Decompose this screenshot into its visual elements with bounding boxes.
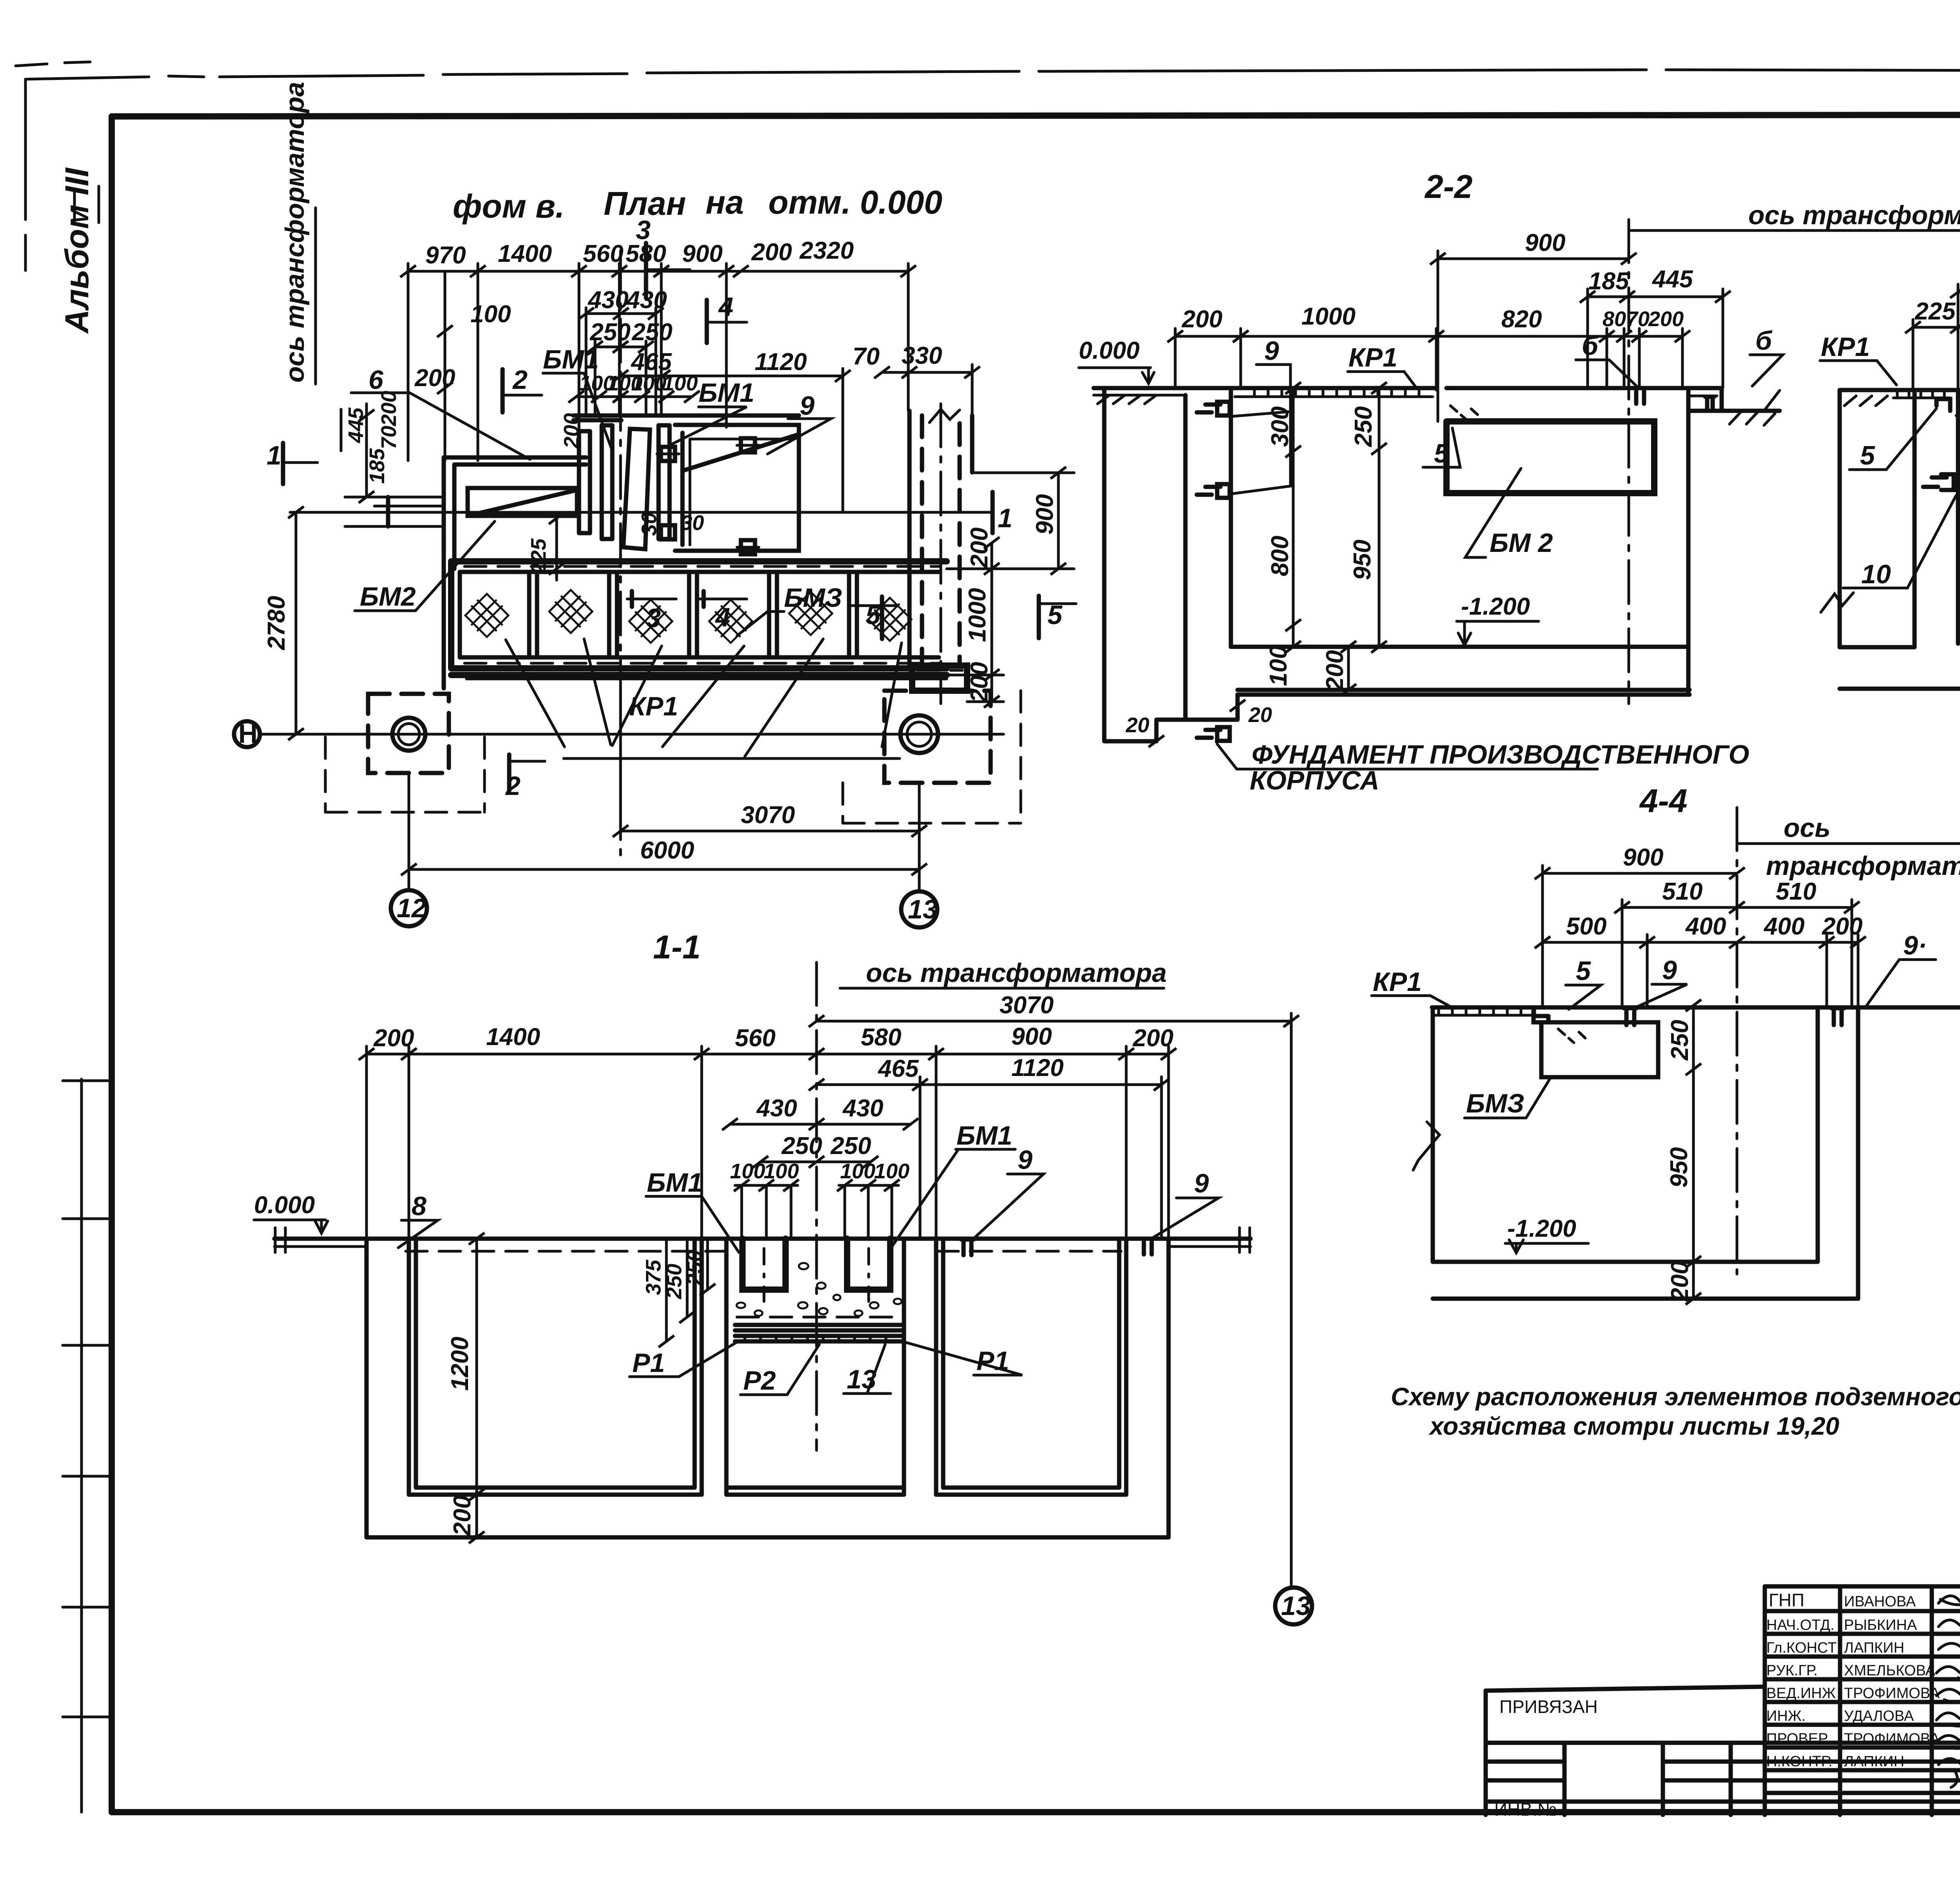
svg-text:КР1: КР1: [1348, 343, 1397, 372]
svg-text:185: 185: [365, 448, 389, 484]
svg-text:200: 200: [966, 528, 993, 568]
top dim chain: [408, 270, 908, 273]
dim 430 430: [730, 1123, 911, 1126]
svg-text:Р2: Р2: [743, 1366, 776, 1395]
axis line 2-2: [1628, 220, 1630, 704]
column extension verticals: [409, 684, 919, 891]
ext verticals: [367, 1046, 1169, 1239]
svg-text:250: 250: [590, 319, 630, 346]
svg-text:900: 900: [1623, 844, 1663, 871]
inventory sub-table: [1486, 1743, 1960, 1815]
signatures squiggles: [1938, 1593, 1960, 1605]
central block sides: [726, 1239, 904, 1495]
svg-text:ИНВ.№: ИНВ.№: [1494, 1799, 1557, 1820]
right box: [675, 425, 799, 551]
dims 100 x4: [576, 396, 692, 398]
svg-text:225: 225: [527, 538, 550, 574]
svg-text:ЛАПКИН: ЛАПКИН: [1844, 1753, 1904, 1770]
svg-text:10: 10: [1861, 559, 1891, 589]
dim 1200 200: [475, 1239, 478, 1537]
svg-text:200: 200: [1321, 650, 1348, 691]
svg-text:ПРИВЯЗАН: ПРИВЯЗАН: [1499, 1697, 1598, 1717]
dim 900: [1543, 866, 1737, 1007]
svg-text:250: 250: [662, 1264, 686, 1299]
ground line 4-4: [1432, 1005, 1960, 1010]
ground top line: [1094, 386, 1722, 390]
svg-text:70: 70: [1626, 307, 1650, 331]
left foundation wall 3-3: [1840, 390, 1915, 647]
slot R4: [659, 425, 670, 539]
svg-text:1: 1: [267, 441, 281, 470]
svg-text:100: 100: [874, 1159, 909, 1183]
page outer thin border left upper: [24, 79, 27, 270]
gravel dots central: [737, 1263, 902, 1316]
svg-text:4: 4: [715, 602, 730, 632]
svg-text:БМ 2: БМ 2: [1490, 528, 1553, 558]
extension verticals from top chain: [408, 263, 908, 490]
svg-text:6000: 6000: [640, 837, 694, 864]
svg-text:б: б: [1755, 326, 1773, 356]
svg-text:950: 950: [1349, 540, 1376, 580]
svg-text:250: 250: [781, 1132, 822, 1159]
dim 510 510: [1622, 900, 1852, 1007]
pit left wall 2-2: [1229, 388, 1233, 647]
svg-text:3: 3: [646, 603, 661, 633]
dim 100 100 pairs: [735, 1184, 898, 1187]
svg-text:ЛАПКИН: ЛАПКИН: [1844, 1640, 1904, 1656]
svg-text:ВЕД.ИНЖ: ВЕД.ИНЖ: [1766, 1685, 1836, 1702]
svg-text:2-2: 2-2: [1424, 168, 1472, 205]
svg-text:250: 250: [632, 319, 672, 346]
svg-text:НАЧ.ОТД.: НАЧ.ОТД.: [1766, 1617, 1835, 1633]
svg-text:12: 12: [397, 893, 426, 923]
svg-text:560: 560: [735, 1025, 775, 1052]
svg-text:185: 185: [1588, 268, 1630, 295]
svg-text:-1.200: -1.200: [1507, 1215, 1576, 1242]
svg-text:250: 250: [830, 1132, 871, 1159]
slot R1: [579, 431, 590, 533]
H axis line: [260, 733, 1004, 736]
svg-text:445: 445: [344, 407, 368, 443]
svg-text:250: 250: [683, 1250, 706, 1286]
svg-text:УДАЛОВА: УДАЛОВА: [1844, 1708, 1914, 1724]
svg-text:ГНП: ГНП: [1769, 1590, 1804, 1610]
wall bottom block: [912, 666, 967, 691]
svg-text:ось трансформатора: ось трансформатора: [280, 82, 310, 383]
svg-text:1400: 1400: [498, 240, 552, 267]
svg-text:200: 200: [751, 239, 792, 266]
svg-text:900: 900: [1011, 1023, 1052, 1050]
anchor squares: [661, 438, 755, 554]
svg-text:30: 30: [681, 511, 704, 535]
svg-text:200: 200: [1822, 913, 1862, 940]
svg-text:БМ2: БМ2: [360, 582, 416, 611]
svg-text:трансформатора: трансформатора: [1766, 851, 1960, 881]
svg-text:20: 20: [1125, 713, 1149, 737]
svg-text:1200: 1200: [446, 1337, 474, 1391]
page outer thin border left lower: [80, 1079, 83, 1812]
svg-text:200: 200: [449, 1495, 476, 1536]
axis vertical dash-dot: [619, 251, 622, 856]
svg-text:Н: Н: [238, 719, 258, 749]
break mark 4-4: [1413, 1122, 1439, 1170]
section mark 2 lower: [507, 755, 512, 791]
svg-text:БМ1: БМ1: [699, 378, 755, 408]
corner step 5: [1936, 399, 1950, 411]
dims 465 1120: [621, 375, 843, 377]
svg-text:Р1: Р1: [632, 1348, 665, 1378]
anchors 4-4: [1624, 1008, 1637, 1025]
anchor mid: [961, 1239, 974, 1255]
svg-text:200: 200: [414, 365, 455, 392]
anchor circles left: [392, 718, 425, 751]
svg-text:300: 300: [1267, 406, 1294, 447]
slot R2: [602, 425, 612, 539]
svg-text:ТРОФИМОВА: ТРОФИМОВА: [1844, 1731, 1940, 1747]
svg-text:БМЗ: БМЗ: [784, 583, 842, 613]
svg-text:БМ1: БМ1: [647, 1168, 703, 1198]
svg-text:510: 510: [1776, 878, 1816, 905]
pit 3: [936, 1239, 1126, 1495]
anchor dashed square right: [884, 691, 991, 783]
svg-text:ХМЕЛЬКОВА: ХМЕЛЬКОВА: [1844, 1662, 1936, 1679]
svg-text:70: 70: [853, 343, 880, 370]
svg-text:РЫБКИНА: РЫБКИНА: [1844, 1617, 1917, 1633]
svg-text:9: 9: [800, 391, 815, 421]
svg-text:560: 560: [583, 240, 623, 267]
tapered slot left: [468, 488, 577, 516]
main dim chain 1-1: [367, 1053, 1169, 1056]
tapered slot center: [623, 429, 650, 549]
dim 250 250: [760, 1161, 871, 1163]
svg-text:5: 5: [1576, 956, 1591, 986]
svg-text:8: 8: [412, 1191, 426, 1221]
page outer corner dashes: [16, 62, 90, 66]
hatch blobs: [465, 594, 508, 637]
dim 250 950: [1378, 390, 1381, 647]
band bottom: [451, 668, 947, 675]
svg-text:на: на: [706, 184, 744, 221]
BM2 block: [1446, 421, 1654, 493]
svg-text:400: 400: [1685, 913, 1726, 940]
svg-text:ИНЖ.: ИНЖ.: [1766, 1708, 1806, 1724]
svg-text:1: 1: [998, 503, 1013, 533]
P2 plate 1-1: [737, 1316, 902, 1319]
cell dividers: [529, 572, 857, 657]
outer walls 1-1: [367, 1239, 1169, 1537]
svg-text:6: 6: [368, 365, 384, 395]
bottom slab 3-3: [1840, 474, 1960, 689]
svg-text:2: 2: [512, 365, 528, 395]
dim 900: [1438, 251, 1627, 421]
anchor symbols on left wall: [1197, 402, 1230, 416]
svg-text:1-1: 1-1: [653, 929, 701, 965]
anchor at block top: [1634, 388, 1646, 404]
svg-text:13: 13: [908, 895, 938, 924]
right box inner band: [690, 439, 792, 545]
dim row 200 1000 820 80 70 200: [1175, 328, 1682, 390]
cell band outer: [451, 561, 947, 668]
svg-text:100: 100: [631, 372, 666, 395]
BM1 slots: [742, 1239, 890, 1290]
svg-text:2320: 2320: [799, 237, 854, 264]
svg-text:225: 225: [1915, 298, 1956, 325]
pit bottom and slab: [1231, 647, 1690, 695]
svg-text:3070: 3070: [741, 802, 795, 829]
ground line 1-1: [274, 1237, 1250, 1241]
right outer wall: [1690, 388, 1780, 411]
svg-text:КР1: КР1: [1373, 967, 1422, 997]
column circle 12: [391, 890, 427, 926]
svg-text:фом в.: фом в.: [453, 188, 564, 225]
svg-text:ось: ось: [1784, 813, 1831, 843]
svg-text:820: 820: [1501, 306, 1542, 333]
vertical dims 250 950 200: [1692, 1005, 1695, 1299]
svg-text:БМЗ: БМЗ: [1466, 1089, 1524, 1118]
svg-text:ФУНДАМЕНТ ПРОИЗВОДСТВЕННОГО: ФУНДАМЕНТ ПРОИЗВОДСТВЕННОГО: [1252, 740, 1749, 769]
svg-text:200: 200: [560, 413, 583, 449]
svg-text:БМ1: БМ1: [543, 345, 599, 374]
box walls 3-3: [1958, 390, 1960, 644]
dim 185 445: [1588, 289, 1723, 388]
svg-text:430: 430: [626, 287, 667, 314]
left protruding ledge lines: [345, 497, 444, 526]
svg-text:13: 13: [1281, 1591, 1311, 1621]
svg-text:1000: 1000: [1301, 303, 1356, 330]
foundation dashed outline: [325, 691, 1021, 823]
dim 200 slab: [1347, 647, 1350, 690]
wall break mark: [929, 409, 960, 423]
pit 1: [409, 1239, 702, 1495]
svg-text:80: 80: [1602, 307, 1626, 331]
anchor dashed square left: [368, 694, 449, 773]
svg-text:430: 430: [587, 287, 628, 314]
top-left ledge: [444, 457, 586, 465]
svg-text:100: 100: [730, 1159, 765, 1183]
svg-text:400: 400: [1763, 913, 1804, 940]
svg-text:445: 445: [1651, 266, 1693, 293]
page outer thin border top: [25, 70, 1960, 79]
svg-text:100: 100: [662, 372, 698, 395]
svg-text:0.000: 0.000: [254, 1192, 315, 1219]
signature table grid: [1765, 1586, 1960, 1815]
svg-text:1120: 1120: [755, 348, 807, 376]
KR1 floor hatch: [1235, 388, 1433, 397]
svg-text:20: 20: [1248, 703, 1272, 727]
right extension lines: [947, 473, 1074, 702]
anchor right: [1142, 1239, 1154, 1254]
anchor right wall: [1705, 397, 1714, 410]
svg-text:9: 9: [1264, 336, 1279, 366]
dim 225 675 675 200: [1913, 319, 1960, 472]
svg-text:375: 375: [642, 1259, 665, 1295]
svg-text:250: 250: [1350, 406, 1377, 447]
svg-text:70: 70: [377, 426, 401, 449]
svg-text:2780: 2780: [263, 596, 290, 650]
axis line 4-4: [1736, 807, 1739, 1274]
svg-text:5: 5: [1860, 441, 1875, 470]
svg-text:100: 100: [1265, 646, 1292, 686]
svg-text:0.000: 0.000: [1079, 337, 1140, 364]
dim 500 400 400 200: [1543, 934, 1858, 1007]
svg-text:200: 200: [1666, 1261, 1693, 1302]
column circle 13: [901, 891, 937, 927]
anchor circles right: [900, 715, 938, 753]
svg-text:1120: 1120: [1011, 1054, 1063, 1081]
svg-text:465: 465: [877, 1055, 919, 1082]
KR1 floor hatch 3-3: [1893, 390, 1950, 398]
svg-text:900: 900: [1031, 494, 1058, 535]
svg-text:КР1: КР1: [1821, 332, 1870, 362]
svg-text:250: 250: [1666, 1020, 1693, 1061]
dim 3070: [817, 1020, 1291, 1023]
dim 6000: [409, 868, 919, 871]
svg-text:б: б: [1582, 331, 1599, 361]
svg-text:970: 970: [425, 242, 466, 269]
dims 250 250: [595, 341, 646, 416]
svg-text:РУК.ГР.: РУК.ГР.: [1766, 1662, 1818, 1679]
plan left wall: [444, 457, 454, 688]
svg-text:Н.КОНТР.: Н.КОНТР.: [1766, 1753, 1833, 1770]
svg-text:200: 200: [1181, 306, 1222, 333]
dim 2780 vertical: [295, 512, 298, 734]
svg-text:500: 500: [1566, 913, 1606, 940]
KR1 floor hatch 4-4: [1435, 1007, 1541, 1015]
svg-text:1400: 1400: [486, 1023, 540, 1051]
svg-text:580: 580: [861, 1024, 901, 1051]
svg-text:ось трансформатора: ось трансформатора: [866, 958, 1167, 988]
svg-text:510: 510: [1662, 878, 1702, 905]
soil hatch under left ground: [1098, 395, 1156, 404]
page inner frame: [112, 114, 1960, 116]
svg-text:4: 4: [718, 292, 733, 322]
svg-text:ТРОФИМОВА: ТРОФИМОВА: [1844, 1685, 1940, 1702]
dims 430 430: [586, 308, 656, 416]
top line over slots: [573, 416, 799, 420]
axis line 1-1: [815, 962, 818, 1450]
svg-text:430: 430: [842, 1095, 883, 1122]
svg-text:9: 9: [1662, 955, 1677, 985]
svg-text:950: 950: [1666, 1147, 1693, 1188]
svg-text:хозяйства смотри листы 19,20: хозяйства смотри листы 19,20: [1428, 1412, 1839, 1440]
fold marks left: [63, 1081, 112, 1717]
dims 375 250 250: [666, 1239, 708, 1341]
svg-text:отм. 0.000: отм. 0.000: [768, 184, 942, 221]
dims 70 330: [882, 371, 972, 374]
BM3 box: [1541, 1022, 1658, 1077]
left sub dims 100/200: [444, 271, 446, 461]
svg-text:9: 9: [1194, 1169, 1209, 1198]
svg-text:-1.200: -1.200: [1461, 593, 1530, 620]
svg-text:100: 100: [764, 1159, 799, 1183]
svg-text:1000: 1000: [964, 588, 991, 642]
svg-text:2: 2: [505, 771, 521, 801]
break mark: [1821, 593, 1853, 612]
svg-text:9: 9: [1018, 1145, 1033, 1175]
svg-text:900: 900: [682, 240, 722, 267]
circle 13 bottom: [1275, 1588, 1312, 1624]
dim 3070: [621, 830, 919, 833]
svg-text:30: 30: [637, 512, 661, 536]
pit walls 4-4: [1433, 1007, 1858, 1299]
svg-text:Схему расположения элементов п: Схему расположения элементов подземного: [1391, 1383, 1960, 1411]
svg-text:Гл.КОНСТ: Гл.КОНСТ: [1766, 1640, 1837, 1656]
dim 300 800 100: [1292, 388, 1295, 647]
svg-text:Альбом III: Альбом III: [58, 167, 95, 334]
svg-text:ПРОВЕР.: ПРОВЕР.: [1766, 1731, 1829, 1747]
H circle: [234, 721, 260, 747]
svg-text:5: 5: [1434, 439, 1449, 468]
svg-text:800: 800: [1267, 536, 1294, 576]
dim 465 1120: [817, 1083, 1161, 1086]
privyazan box: [1486, 1687, 1765, 1815]
svg-text:200: 200: [1648, 307, 1684, 331]
right vertical dim chains: [1057, 473, 1060, 569]
svg-text:4-4: 4-4: [1639, 782, 1687, 819]
svg-text:900: 900: [1525, 229, 1565, 256]
dim 1350: [1958, 284, 1960, 388]
ground left 3-3: [1840, 388, 1958, 392]
svg-text:ИВАНОВА: ИВАНОВА: [1844, 1593, 1916, 1610]
right ground: [1690, 395, 1717, 397]
svg-text:ось трансформатора: ось трансформатора: [1748, 200, 1960, 230]
anchor dashes left: [1923, 474, 1954, 490]
svg-text:9·: 9·: [1903, 931, 1927, 960]
right wall structure: [909, 411, 972, 666]
svg-text:430: 430: [756, 1095, 797, 1122]
svg-text:БМ1: БМ1: [956, 1121, 1013, 1150]
pit right wall: [1686, 388, 1691, 692]
plan centerline horizontal: [341, 511, 962, 514]
svg-text:100: 100: [470, 301, 511, 328]
left building foundation: [1104, 390, 1238, 741]
svg-text:100: 100: [840, 1159, 875, 1183]
svg-text:3070: 3070: [1000, 992, 1054, 1019]
svg-text:200: 200: [377, 391, 401, 426]
svg-text:330: 330: [902, 342, 942, 369]
